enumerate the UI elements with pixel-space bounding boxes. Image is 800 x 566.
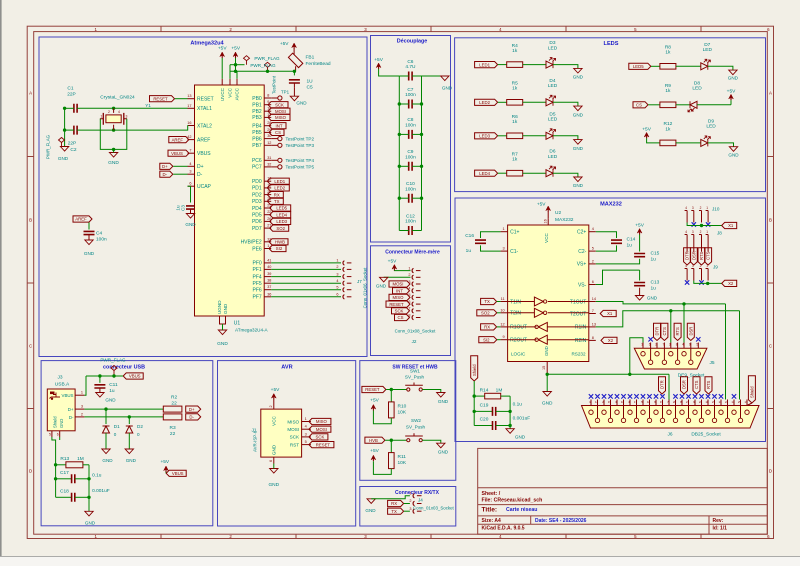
svg-text:+5V: +5V [635,223,644,229]
svg-text:1k: 1k [512,48,518,54]
svg-text:VBUS: VBUS [171,151,183,156]
svg-text:+5V: +5V [370,448,379,454]
power +5V (J1) [271,387,280,400]
svg-text:C14: C14 [627,237,636,243]
J3 value USB.A [55,382,70,388]
resistor R3 22 [163,414,182,437]
title block id [713,526,728,532]
svg-text:RTS: RTS [675,327,680,336]
capacitor C17 0.1u [56,470,102,483]
wire [293,70,296,76]
svg-text:Shield: Shield [53,416,58,428]
svg-text:C15: C15 [651,251,660,257]
svg-text:SCK: SCK [395,309,404,314]
op-amp U2 MAX232 body [508,225,589,362]
svg-text:D3: D3 [549,40,555,46]
testpoint TP5 [271,165,314,170]
power flag PWR_FLAG (crystal) [46,134,65,159]
svg-text:+5V: +5V [370,398,379,404]
svg-text:LED2: LED2 [479,100,490,105]
label Shield (R14) [471,356,478,381]
svg-text:X1: X1 [728,223,734,228]
power flag PWR_FLAG 1 [244,56,281,65]
svg-text:C1-: C1- [510,249,518,255]
svg-text:GND: GND [515,435,526,440]
U2 pin 16 VCC [544,219,549,243]
ground (C3) [185,214,196,228]
ground (R14 ladder) [506,429,526,440]
capacitor C9 100n [398,149,424,171]
svg-text:SCK: SCK [275,102,284,107]
svg-text:connecteur USB: connecteur USB [103,365,145,371]
svg-text:4: 4 [682,343,684,347]
svg-text:0.1u: 0.1u [92,472,102,478]
svg-text:0.1u: 0.1u [513,401,523,407]
wire [394,270,410,272]
power +5V (VCC) [231,46,240,59]
svg-text:GND: GND [217,341,228,347]
capacitor C18 0.001uF [56,488,110,502]
svg-text:10K: 10K [398,460,407,466]
switch SW2 SV_Push [405,433,423,442]
wire [497,326,501,328]
svg-text:GND: GND [223,303,228,314]
svg-text:22P: 22P [68,141,77,147]
svg-text:100n: 100n [405,219,416,225]
section box Connecteur Mere-mere [371,246,451,356]
U2 inverter T1 [508,297,589,306]
svg-text:INT: INT [276,123,283,128]
label X2 (R2IN) [601,337,617,343]
svg-text:UCAP: UCAP [197,184,212,190]
SW1 texts [405,369,425,380]
svg-text:22: 22 [170,431,176,437]
resistor R10 10K [373,390,406,424]
svg-text:LED3: LED3 [276,219,287,224]
connector J3 USB.A body [47,389,75,431]
svg-text:U1: U1 [234,321,241,327]
svg-text:LED4: LED4 [276,212,287,217]
svg-text:2: 2 [655,343,657,347]
resistor R5 / LED D4 row [475,78,584,118]
svg-text:C12: C12 [406,213,415,219]
svg-text:J7: J7 [357,279,362,284]
svg-text:X2: X2 [728,281,734,286]
svg-text:R6: R6 [512,114,518,120]
svg-text:5: 5 [696,343,698,347]
svg-text:D+: D+ [189,407,195,412]
svg-text:D-: D- [163,172,168,177]
svg-text:A: A [769,91,772,96]
svg-text:9: 9 [689,343,691,347]
svg-text:RESET: RESET [197,97,214,103]
svg-text:8: 8 [267,94,269,98]
ground (C4) [84,240,95,256]
svg-text:PB1: PB1 [252,103,262,109]
svg-text:7: 7 [189,149,191,153]
svg-text:AREF: AREF [197,137,210,143]
svg-text:J5: J5 [710,360,715,366]
svg-text:MISO: MISO [275,115,287,120]
wire [422,390,441,393]
svg-text:16: 16 [187,121,191,125]
svg-text:C3: C3 [181,205,186,211]
svg-text:1: 1 [502,227,504,231]
connector J1 AVR-ISP-6 body [261,409,302,457]
ground (crystal) [108,149,119,166]
testpoint TP3 [271,143,314,148]
svg-text:Title:: Title: [482,507,498,514]
svg-text:SO2: SO2 [276,226,285,231]
wire [379,69,400,76]
resistor R6 / LED D5 row [475,111,584,151]
svg-text:25: 25 [738,400,742,404]
svg-text:GND: GND [268,482,279,488]
testpoint TP4 [271,158,314,163]
svg-text:PB5: PB5 [252,130,262,136]
svg-text:GND: GND [84,251,95,256]
ground (D1) [102,449,113,463]
wire [668,374,670,399]
svg-text:1u: 1u [176,205,181,211]
section title Connecteur Mere-mere [385,250,440,256]
capacitor C12 100n [399,213,421,235]
label D- [160,171,173,177]
svg-text:RTS: RTS [706,380,711,389]
svg-text:D+: D+ [162,164,168,169]
svg-text:PC6: PC6 [252,158,262,164]
section box SW RESET et HWB [360,361,456,481]
label MISO (J2) [389,294,410,300]
svg-text:3: 3 [669,343,671,347]
svg-text:LED: LED [548,83,558,89]
svg-text:100n: 100n [96,237,107,243]
svg-text:22: 22 [699,400,703,404]
label VBUS (bottom) [166,470,186,476]
svg-text:LEDS: LEDS [604,41,619,47]
J5 no-connects [648,337,700,341]
svg-text:File: CReseau.kicad_sch: File: CReseau.kicad_sch [482,497,543,503]
svg-text:GND: GND [728,76,739,81]
svg-text:Date: SE4 - 2025/2026: Date: SE4 - 2025/2026 [535,518,587,524]
power +5V (R10) [370,398,379,411]
svg-text:R13: R13 [60,456,69,462]
svg-text:1u: 1u [627,243,633,249]
section title SW RESET et HWB [392,365,438,371]
label HWB (SW) [365,437,385,443]
svg-text:LED: LED [703,47,713,53]
svg-text:31: 31 [267,156,271,160]
svg-text:RX: RX [484,325,490,330]
svg-text:1: 1 [267,244,269,248]
U2 left pins [500,227,527,343]
svg-text:T1OUT: T1OUT [570,299,586,305]
svg-text:1u: 1u [651,257,657,263]
svg-text:R1IN: R1IN [575,325,587,331]
svg-text:2: 2 [409,499,411,503]
svg-text:RESET: RESET [365,387,380,392]
J3 pin 2 [75,412,84,417]
svg-text:AVCC: AVCC [235,87,240,100]
svg-text:R8: R8 [665,45,671,51]
svg-text:100n: 100n [405,92,416,98]
capacitor C8 100n [398,117,424,139]
J3 pin texts [53,393,75,428]
svg-text:CS: CS [636,103,642,108]
resistor R7 / LED D6 row [475,149,584,189]
svg-text:GND: GND [126,458,137,463]
svg-text:J4: J4 [418,498,423,503]
wire [175,98,188,100]
svg-text:J10: J10 [712,207,720,212]
power +5V (VBUS flag) [160,459,169,473]
U2 inverter R1 [508,322,589,331]
svg-text:D8: D8 [694,80,700,86]
wire [725,304,727,400]
svg-text:PWR_FLAG: PWR_FLAG [254,56,280,61]
svg-text:C4: C4 [96,231,102,237]
svg-text:TestPoint: TestPoint [272,75,277,94]
svg-text:13: 13 [744,400,748,404]
svg-text:0: 0 [114,432,117,437]
svg-text:PF0: PF0 [253,261,262,267]
wire [234,58,237,73]
section title MAX232 [600,202,622,208]
section box AVR [218,361,356,526]
svg-text:D4: D4 [549,78,555,84]
svg-text:Size: A4: Size: A4 [482,518,501,524]
svg-text:MAX232: MAX232 [555,217,574,223]
label VBUS (USB top) [123,373,143,379]
section box Decouplage [371,36,451,243]
svg-text:LED1: LED1 [479,62,490,67]
label INT (J2) [393,288,410,294]
J1 right pins [287,417,311,447]
svg-text:USB.A: USB.A [55,382,70,388]
label X2 (J9) [722,280,737,286]
crystal Y1 CrystaL_GN024 [100,95,151,131]
svg-text:5: 5 [305,440,307,444]
svg-text:LED: LED [548,154,558,160]
svg-text:XTAL2: XTAL2 [197,123,212,129]
window edge left [0,0,2,566]
svg-text:R2: R2 [171,394,177,400]
J10 no-connects [692,222,711,226]
J5 labels DTR CTS RTS DSR [654,323,695,340]
label MISO (J1) [309,418,331,424]
capacitor C3 1u [176,205,196,214]
svg-text:C13: C13 [651,280,660,286]
resistor R12 / LED D9 row [642,118,739,157]
J1 value AVR-ISP-6 [253,430,258,452]
power +5V (R11) [370,448,379,461]
svg-text:22: 22 [171,400,177,406]
title block sheet [482,491,501,497]
label X1 (J10) [722,222,737,228]
svg-text:7: 7 [592,309,594,313]
svg-text:11: 11 [718,400,721,404]
power flag PWR_FLAG (USB) [100,358,126,375]
wire [422,440,441,443]
svg-text:C8: C8 [407,117,413,123]
ground (crystal caps) [58,147,69,161]
svg-text:U2: U2 [555,210,561,216]
resistor R8 / LED D7 row [629,42,739,81]
svg-text:D-: D- [197,172,203,178]
svg-text:3: 3 [126,115,128,119]
section box Atmega32u4 [39,37,367,357]
svg-text:8: 8 [676,343,678,347]
J3 usb icon [50,392,61,400]
svg-text:J2: J2 [412,339,417,344]
svg-text:MISO: MISO [316,419,328,424]
svg-text:C16: C16 [465,233,474,239]
svg-text:B: B [769,218,772,223]
svg-text:1M: 1M [496,387,503,393]
wire [497,312,501,314]
wire [670,311,672,343]
svg-text:1U: 1U [307,79,314,85]
label RESET (SW) [362,386,386,392]
svg-text:R2IN: R2IN [575,338,587,344]
svg-text:GND: GND [442,86,453,91]
svg-text:38: 38 [267,279,271,283]
svg-text:MISO: MISO [287,419,299,424]
wire [386,388,407,391]
label AREF (C4) [73,216,92,222]
J3 pin 3 [75,405,84,410]
svg-text:TX: TX [391,509,397,514]
power +5V (U2) [537,202,551,213]
label MOSI (J1) [309,426,331,432]
svg-text:MAX232: MAX232 [600,202,622,208]
svg-text:MOSI: MOSI [287,427,299,432]
svg-text:2: 2 [700,206,702,210]
label D+ [160,163,173,169]
svg-text:1M: 1M [77,456,84,462]
svg-text:SV_Push: SV_Push [405,375,425,380]
svg-text:D2: D2 [137,424,143,429]
svg-text:4.7U: 4.7U [405,64,416,70]
svg-text:GND: GND [272,444,277,455]
svg-text:D: D [29,469,32,474]
U2 inverter T2 [508,308,589,317]
label TX (J4) [388,508,404,514]
resistor R4 / LED D3 row [475,40,584,80]
svg-text:1k: 1k [665,88,671,94]
wire D- net [84,415,163,418]
section title Atmega32u4 [190,41,224,47]
svg-text:36: 36 [267,292,271,296]
label Shield (J6) [747,376,755,406]
svg-text:GND: GND [58,156,69,161]
svg-text:CTS: CTS [694,380,699,389]
svg-text:1u: 1u [109,388,115,394]
svg-text:1k: 1k [512,86,518,92]
svg-text:J6: J6 [667,432,672,438]
section box MAX232 [455,198,766,442]
wire [230,63,245,66]
connector J8 pins [685,230,709,247]
wire [52,437,60,497]
labels LED1 LED2 RX TX LED5 LED4 LED3 SO2 [267,178,290,231]
svg-text:PD7: PD7 [252,226,262,232]
J5 value DE9_Socket [678,373,705,379]
ground (J2) [376,277,388,288]
svg-text:SCK: SCK [290,435,300,440]
svg-text:LED: LED [706,124,716,130]
svg-text:C9: C9 [407,149,413,155]
svg-text:CrystaL_GN024: CrystaL_GN024 [100,95,135,101]
ground (U1) [217,324,228,347]
title block rev [713,518,724,524]
capacitor C5 [289,79,313,91]
svg-text:1: 1 [706,264,708,268]
svg-text:T2OUT: T2OUT [570,311,586,317]
wire D+ net [84,407,163,410]
wire [694,281,722,286]
svg-text:RESET: RESET [153,96,168,101]
ground (SW2) [437,443,449,455]
svg-text:5: 5 [592,247,594,251]
power +5V (FB1) [280,41,297,49]
svg-text:SO2: SO2 [481,311,490,316]
svg-text:GND: GND [296,101,307,106]
label SCK (J1) [309,434,328,440]
svg-text:DB25_Socket: DB25_Socket [691,432,721,438]
svg-text:SV_Push: SV_Push [406,424,426,429]
svg-text:3: 3 [81,405,83,409]
capacitor C10 100n [398,181,424,203]
svg-text:+5V: +5V [727,88,736,94]
svg-text:KiCad E.D.A. 9.0.5: KiCad E.D.A. 9.0.5 [482,526,525,532]
ground (decouplage) [441,76,453,91]
svg-text:GND: GND [438,450,449,455]
wire [422,75,445,77]
wire crystal gnd loop [100,119,127,151]
svg-text:4: 4 [118,110,120,114]
svg-text:AREF: AREF [172,137,184,142]
svg-text:41: 41 [267,258,271,262]
svg-text:Connecteur RX/TX: Connecteur RX/TX [395,490,440,496]
svg-text:4: 4 [685,230,687,234]
svg-text:VBUS: VBUS [129,374,141,379]
svg-text:Shield: Shield [472,364,477,376]
svg-text:R9: R9 [665,83,671,89]
svg-text:TP1: TP1 [281,90,290,95]
svg-text:11: 11 [501,297,505,301]
svg-text:D-: D- [69,415,74,420]
svg-text:0: 0 [137,432,140,437]
svg-text:Découplage: Découplage [397,39,428,45]
label SO2 (U2) [477,310,497,316]
wire [497,301,501,303]
svg-text:R12: R12 [663,121,672,127]
svg-text:R14: R14 [480,387,489,393]
J6 reference J6 [667,432,672,438]
svg-text:LOGIC: LOGIC [511,352,526,357]
U1 value ATmega32U4-A [235,328,269,333]
svg-text:100n: 100n [405,186,416,192]
wire [84,376,86,395]
svg-text:C19: C19 [480,403,489,409]
svg-text:3: 3 [502,247,504,251]
J1 reference J1 [251,428,256,434]
svg-text:Connecteur Mère-mère: Connecteur Mère-mère [385,250,440,256]
svg-text:1u: 1u [651,286,657,292]
J1 GND pin [269,444,276,463]
svg-text:PB3: PB3 [252,115,262,121]
